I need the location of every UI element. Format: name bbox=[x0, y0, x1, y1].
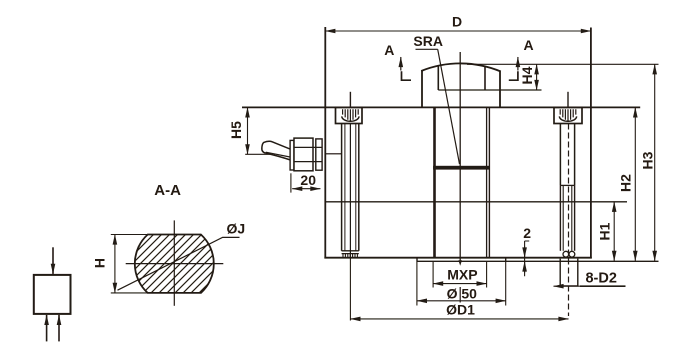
dimension H5 line bbox=[247, 107, 249, 154]
left bolt shaft outer lines bbox=[341, 124, 343, 251]
dimension MXP line bbox=[433, 283, 487, 285]
left bolt socket arc bbox=[342, 116, 359, 121]
svg-text:H3: H3 bbox=[640, 151, 656, 169]
OD1 left extension (bolt center) bbox=[349, 258, 351, 321]
right bolt transition line bbox=[560, 184, 574, 186]
left bolt socket hatch bbox=[343, 109, 359, 121]
cable gland collar bbox=[290, 140, 294, 170]
body right edge + D extension bbox=[590, 28, 592, 259]
cap right vertical bbox=[499, 71, 501, 107]
svg-text:H: H bbox=[92, 258, 108, 268]
A-A section shape bbox=[135, 235, 214, 293]
left bolt center line above head bbox=[349, 92, 351, 108]
dimension 2 upper arrow bbox=[524, 247, 526, 258]
SRA underline bbox=[416, 48, 438, 50]
dimension H2 line bbox=[634, 107, 636, 261]
flange right vertical bbox=[505, 258, 507, 262]
body bottom line bbox=[324, 257, 591, 259]
cap inner right vertical bbox=[484, 66, 486, 90]
section mark A left arrow bbox=[400, 57, 402, 71]
dimension OD1 line bbox=[350, 318, 568, 320]
dimension 2 lower arrow bbox=[524, 262, 526, 273]
column center line bbox=[459, 52, 461, 262]
section mark A left cut line bbox=[402, 71, 412, 80]
left bolt end hatch bbox=[343, 254, 357, 258]
A-A horizontal center line bbox=[126, 263, 224, 265]
svg-text:SRA: SRA bbox=[413, 33, 443, 49]
right bolt dashed center line bbox=[568, 124, 570, 317]
svg-text:H5: H5 bbox=[228, 121, 244, 139]
column thick band (strain gauge area) bbox=[433, 166, 489, 170]
svg-text:ØJ: ØJ bbox=[226, 221, 245, 237]
right bolt center line above head bbox=[567, 92, 569, 108]
flange left vertical bbox=[416, 258, 418, 262]
column right pair bbox=[486, 107, 488, 257]
svg-text:ØD1: ØD1 bbox=[446, 302, 475, 318]
svg-text:D: D bbox=[452, 13, 462, 29]
right bolt socket arc bbox=[559, 116, 576, 121]
svg-text:H1: H1 bbox=[597, 222, 613, 240]
cap dome arc bbox=[421, 63, 501, 71]
cap inner left vertical bbox=[437, 66, 439, 90]
A-A hatch lines bbox=[72, 220, 288, 300]
section mark A right cut line bbox=[509, 71, 518, 80]
svg-text:20: 20 bbox=[300, 172, 316, 188]
svg-text:Ø 50: Ø 50 bbox=[447, 286, 478, 302]
dimension H4 line bbox=[536, 64, 538, 90]
A-A vertical center line bbox=[173, 220, 175, 305]
cable crease line bbox=[266, 152, 290, 157]
dimension 2 tick and line bbox=[525, 241, 530, 276]
body left edge + D extension bbox=[324, 27, 326, 258]
cap top extension line (H4/H3) bbox=[467, 63, 659, 65]
force box bbox=[34, 275, 71, 314]
flange bottom line / H extension bbox=[417, 260, 659, 262]
cable wire bbox=[262, 141, 291, 160]
svg-text:H4: H4 bbox=[519, 66, 535, 84]
cable gland lock nut bbox=[316, 139, 322, 170]
dimension 20 extension line bbox=[290, 173, 292, 192]
cable gland main nut bbox=[294, 138, 313, 171]
svg-text:A: A bbox=[524, 37, 534, 53]
dimension H1 line bbox=[613, 202, 615, 261]
dimension H line bbox=[114, 235, 116, 293]
left bolt head bbox=[336, 107, 363, 123]
cap left vertical bbox=[421, 71, 423, 108]
right bolt socket hatch bbox=[560, 109, 576, 121]
cable hole line left segment (H5 extension) bbox=[245, 153, 291, 155]
svg-text:A: A bbox=[384, 42, 394, 58]
left bolt shaft inner lines bbox=[344, 124, 346, 251]
dimension O50 line bbox=[417, 300, 506, 302]
svg-text:8-D2: 8-D2 bbox=[585, 271, 616, 287]
SRA leader line bbox=[438, 49, 460, 164]
right bolt head bbox=[554, 107, 582, 123]
right bolt end circles bbox=[563, 251, 569, 257]
svg-text:A-A: A-A bbox=[154, 182, 181, 199]
cap inner horizontal + H4 bottom extension bbox=[438, 89, 541, 91]
left bolt shaft center line bbox=[349, 124, 351, 258]
gland facet lines bbox=[294, 146, 322, 148]
dimension D line bbox=[325, 30, 591, 32]
mounting hole below right bolt bbox=[560, 259, 578, 286]
force bottom arrow 2 bbox=[58, 315, 60, 342]
body top surface line bbox=[242, 106, 640, 108]
force top arrow bbox=[52, 247, 54, 274]
right bolt thread section lines bbox=[559, 185, 561, 250]
dimension H3 line bbox=[654, 64, 656, 261]
H dimension extension lines bbox=[111, 234, 148, 236]
force bottom arrow 1 bbox=[46, 315, 48, 342]
right bolt shaft outer lines bbox=[559, 124, 561, 186]
OJ leader line bbox=[118, 237, 240, 290]
section mark A right arrow bbox=[517, 57, 519, 71]
body internal division line bbox=[325, 201, 627, 203]
MXP extension lines bbox=[432, 262, 434, 288]
left bolt end bands bbox=[342, 250, 359, 252]
svg-text:MXP: MXP bbox=[447, 267, 477, 283]
cable hole line inside body bbox=[326, 153, 342, 155]
svg-text:2: 2 bbox=[523, 225, 531, 241]
column outer left pair bbox=[433, 107, 436, 257]
dimension 20 line bbox=[292, 188, 320, 190]
8-D2 leader line bbox=[554, 285, 625, 287]
svg-text:H2: H2 bbox=[618, 174, 634, 192]
O50 extension lines bbox=[416, 262, 418, 306]
